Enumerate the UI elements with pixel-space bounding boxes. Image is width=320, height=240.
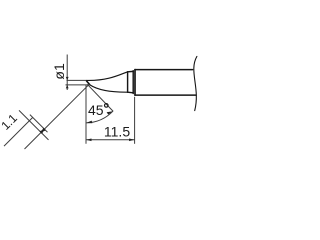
1.1 arrow at C2 bbox=[39, 129, 44, 134]
ring bottom edge bbox=[128, 91, 134, 94]
1.1 extension tick F1 bbox=[19, 110, 49, 139]
cylinder top edge bbox=[135, 69, 193, 71]
45deg arc bbox=[86, 111, 113, 123]
11.5 dimension line bbox=[86, 139, 135, 141]
second diagonal G bbox=[4, 118, 33, 147]
1.1 arrow at C1 bbox=[41, 128, 46, 133]
dia1 down arrow bbox=[66, 77, 69, 81]
cylinder bottom edge bbox=[135, 94, 196, 96]
45deg degree circle bbox=[105, 104, 109, 108]
11.5 right extension line bbox=[134, 97, 136, 144]
dia1 top extension line bbox=[67, 79, 87, 81]
11.5 right arrow bbox=[129, 139, 135, 142]
bevel face at tip bbox=[87, 81, 90, 85]
arc right arrow bbox=[107, 111, 113, 114]
arc bottom-left arrow bbox=[86, 121, 92, 124]
45deg ray bbox=[87, 84, 113, 111]
arrowheads bbox=[39, 77, 134, 141]
45deg vertical ray / 11.5 left extension bbox=[85, 85, 87, 144]
soldering tip body outline bbox=[86, 56, 197, 110]
cone base vertical bbox=[127, 72, 129, 92]
break line S-curve bbox=[194, 56, 197, 110]
svg-text:11.5: 11.5 bbox=[104, 124, 130, 140]
ring end vertical bbox=[132, 71, 134, 94]
1.1 dimension diagonal E bbox=[25, 85, 89, 149]
cylinder front vertical bbox=[134, 70, 136, 96]
11.5 left arrow bbox=[86, 139, 92, 142]
dia1 up arrow bbox=[66, 85, 69, 89]
ring top edge bbox=[128, 70, 134, 72]
dia1 bottom extension line bbox=[66, 84, 90, 86]
dia1 vertical dimension line bbox=[66, 55, 68, 91]
1.1 extension tick F2 bbox=[30, 115, 48, 133]
svg-text:45: 45 bbox=[88, 102, 104, 118]
cone top edge bbox=[86, 72, 127, 81]
cone bottom edge bbox=[90, 85, 128, 92]
dimension lines bbox=[4, 55, 135, 150]
svg-text:ø1: ø1 bbox=[51, 63, 67, 80]
